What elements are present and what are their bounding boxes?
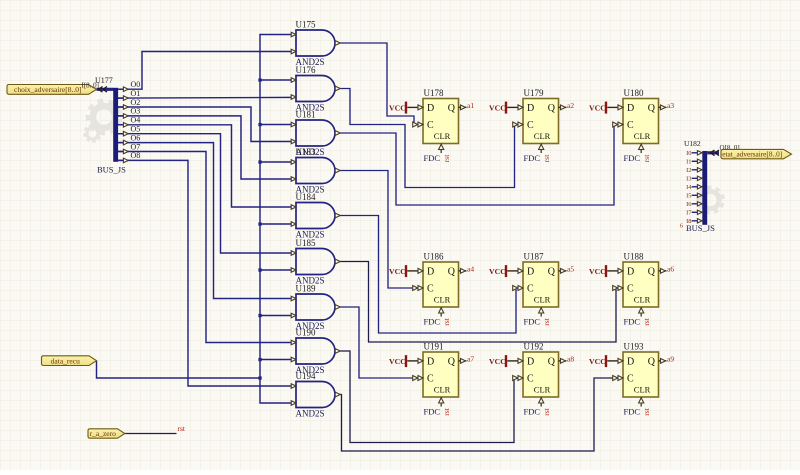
svg-text:VCC: VCC [589,104,606,113]
label BUS_JS of U182 [686,223,715,233]
svg-text:CLR: CLR [534,295,551,305]
wire U185.out to U188.C [335,262,623,343]
label I[8..0] [82,82,100,90]
svg-text:U189: U189 [296,284,316,294]
svg-text:O5: O5 [131,125,141,134]
svg-text:data_recu: data_recu [51,356,80,365]
svg-text:VCC: VCC [489,357,506,366]
svg-text:Q: Q [648,103,656,114]
svg-text:D: D [527,103,534,114]
label BUS_JS of U177 [97,165,126,175]
svg-text:FDC: FDC [424,407,441,417]
svg-text:rst: rst [642,407,651,415]
svg-text:C: C [427,374,434,385]
bus exit chevrons at etat port [711,150,720,156]
svg-text:CLR: CLR [634,131,651,141]
svg-text:U183: U183 [296,147,316,157]
flip-flop U191 [413,342,475,417]
svg-text:etat_adversaire[8..0]: etat_adversaire[8..0] [722,150,782,159]
svg-text:U188: U188 [624,252,644,262]
svg-text:O0: O0 [131,80,141,89]
svg-text:Q: Q [548,356,556,367]
svg-text:Q: Q [648,266,656,277]
wire U183.out to U186.C [335,171,423,289]
wire U175.out to U178.C [335,43,423,125]
svg-text:Q: Q [448,266,456,277]
svg-text:rst: rst [178,424,186,433]
svg-text:a2: a2 [567,101,574,110]
U177 output pins O0-O8 [118,80,140,163]
wire U182 to etat_adversaire [707,151,719,154]
svg-text:U193: U193 [624,342,644,352]
flip-flop U180 [613,88,675,163]
svg-text:rst: rst [542,407,551,415]
svg-text:I0: I0 [686,150,691,157]
svg-text:CLR: CLR [534,385,551,395]
svg-text:U181: U181 [296,110,316,120]
flip-flop U187 [513,252,575,327]
svg-text:CLR: CLR [634,295,651,305]
svg-text:O4: O4 [131,116,141,125]
and-gate U175 [291,20,340,68]
svg-text:U184: U184 [296,192,316,202]
svg-text:U176: U176 [296,65,316,75]
svg-text:C: C [627,120,634,131]
wire O2 [118,107,296,142]
svg-text:a8: a8 [567,354,574,363]
svg-text:BUS_JS: BUS_JS [97,165,126,175]
wire O0 [118,52,296,90]
svg-text:FDC: FDC [624,153,641,163]
wire O7 [118,152,296,343]
svg-text:FDC: FDC [624,407,641,417]
svg-text:D: D [527,356,534,367]
svg-text:I7: I7 [686,210,692,217]
U182 input pins I0-I8 [686,150,702,225]
svg-text:CLR: CLR [534,131,551,141]
svg-text:FDC: FDC [624,317,641,327]
bus splitter U177 body [113,88,118,162]
svg-text:U191: U191 [424,342,444,352]
svg-text:U175: U175 [296,20,316,30]
wire O4 [118,125,296,207]
svg-text:rst: rst [442,154,451,162]
svg-text:I1: I1 [686,159,691,166]
svg-text:C: C [527,374,534,385]
flip-flop U186 [413,252,475,327]
junction dots on data_recu rail [258,78,261,379]
svg-text:C: C [427,284,434,295]
svg-text:VCC: VCC [589,267,606,276]
svg-text:CLR: CLR [434,131,451,141]
svg-text:VCC: VCC [389,357,406,366]
svg-text:a5: a5 [567,264,574,273]
svg-text:C: C [427,120,434,131]
svg-text:O3: O3 [131,107,141,116]
and-gate U184 [291,192,340,240]
power VCC at U193 [589,355,623,367]
svg-text:rst: rst [442,317,451,325]
wire choix_adversaire to U177 [97,88,114,91]
wire U181.out to U180.C [335,125,623,206]
svg-text:U185: U185 [296,238,316,248]
svg-text:U192: U192 [524,342,544,352]
svg-text:U190: U190 [296,328,316,338]
wire data_recu [97,361,261,378]
svg-text:VCC: VCC [489,104,506,113]
port choix_adversaire[8..0] [7,85,97,95]
power VCC at U179 [489,102,523,114]
svg-text:U178: U178 [424,88,444,98]
svg-text:D: D [627,103,634,114]
svg-text:U179: U179 [524,88,544,98]
designator U182 [684,139,701,148]
port r_a_zero [88,429,125,438]
power VCC at U192 [489,355,523,367]
svg-text:VCC: VCC [389,267,406,276]
svg-text:rst: rst [542,317,551,325]
power VCC at U180 [589,102,623,114]
label O[8..0] [720,144,740,152]
power VCC at U187 [489,265,523,277]
power VCC at U186 [389,265,423,277]
svg-text:D: D [627,266,634,277]
svg-text:I2: I2 [686,167,691,174]
port data_recu [42,356,97,366]
svg-text:C: C [527,120,534,131]
wire U176.out to U179.C [335,89,523,188]
svg-text:FDC: FDC [524,153,541,163]
wire r_a_zero to rst [125,433,177,435]
wire U184.out to U187.C [335,216,523,334]
svg-text:D: D [627,356,634,367]
svg-text:choix_adversaire[8..0]: choix_adversaire[8..0] [14,85,81,94]
wire U194.out to U193.C [335,378,623,451]
svg-text:O8: O8 [131,151,141,160]
power VCC at U178 [389,102,423,114]
svg-text:O2: O2 [131,98,141,107]
svg-text:FDC: FDC [424,317,441,327]
gear watermark near U182 [696,186,725,215]
svg-text:I4: I4 [686,184,692,191]
and-gate U185 [291,238,340,286]
flip-flop U192 [513,342,575,417]
wire O6 [118,143,296,299]
port etat_adversaire[8..0] [721,149,792,158]
flip-flop U178 [413,88,475,163]
svg-text:Q: Q [548,103,556,114]
svg-text:CLR: CLR [634,385,651,395]
and-gate U181 [291,110,340,158]
svg-text:6: 6 [680,224,683,230]
svg-text:a6: a6 [667,264,674,273]
svg-text:r_a_zero: r_a_zero [90,429,116,438]
svg-text:AND2S: AND2S [296,409,325,419]
wire O5 [118,134,296,253]
svg-text:a3: a3 [667,101,674,110]
bus joiner U182 body [702,151,707,225]
svg-text:VCC: VCC [589,357,606,366]
and-gate U183 [291,147,340,195]
flip-flop U193 [613,342,675,417]
svg-text:VCC: VCC [489,267,506,276]
svg-text:a7: a7 [467,354,474,363]
svg-text:U186: U186 [424,252,444,262]
svg-text:D: D [427,356,434,367]
svg-text:U177: U177 [95,76,113,85]
svg-text:rst: rst [542,154,551,162]
svg-text:I6: I6 [686,201,692,208]
svg-text:Q: Q [648,356,656,367]
and-gate U190 [291,328,340,376]
svg-text:Q: Q [448,356,456,367]
svg-text:a4: a4 [467,264,474,273]
svg-text:CLR: CLR [434,385,451,395]
svg-text:U180: U180 [624,88,644,98]
svg-text:rst: rst [642,317,651,325]
svg-text:U194: U194 [296,371,316,381]
power VCC at U191 [389,355,423,367]
svg-text:U182: U182 [684,139,701,148]
wire O8 [118,160,296,386]
svg-text:a9: a9 [667,354,674,363]
svg-text:rst: rst [642,154,651,162]
and-gate U194 [291,371,340,419]
svg-text:O7: O7 [131,142,141,151]
designator U177 [95,76,113,85]
svg-text:I5: I5 [686,193,691,200]
svg-text:rst: rst [442,407,451,415]
svg-text:O1: O1 [131,89,141,98]
svg-text:D: D [427,103,434,114]
svg-text:Q: Q [448,103,456,114]
wire O3 [118,116,296,179]
svg-text:VCC: VCC [389,104,406,113]
svg-text:I8: I8 [686,218,691,225]
svg-text:a1: a1 [467,101,474,110]
svg-text:C: C [627,284,634,295]
svg-text:D: D [427,266,434,277]
rail stubs to gate inputs [260,80,296,360]
svg-text:C: C [527,284,534,295]
svg-text:O6: O6 [131,133,141,142]
svg-text:C: C [627,374,634,385]
and-gate U189 [291,284,340,332]
bus entry chevrons at U177 [99,87,108,93]
net label rst [178,424,186,433]
wire data_recu rail [260,35,296,404]
wire U189.out to U191.C [335,307,423,378]
svg-text:U187: U187 [524,252,544,262]
wire O1 [118,96,296,99]
gear watermark near U177 [83,99,122,144]
svg-text:FDC: FDC [524,317,541,327]
svg-text:I3: I3 [686,176,691,183]
svg-text:FDC: FDC [424,153,441,163]
U182 pin number 6 [680,224,683,230]
power VCC at U188 [589,265,623,277]
svg-text:Q: Q [548,266,556,277]
flip-flop U188 [613,252,675,327]
and-gate U176 [291,65,340,113]
svg-text:D: D [527,266,534,277]
flip-flop U179 [513,88,575,163]
svg-text:FDC: FDC [524,407,541,417]
svg-text:CLR: CLR [434,295,451,305]
wire U190.out to U192.C [335,351,523,443]
